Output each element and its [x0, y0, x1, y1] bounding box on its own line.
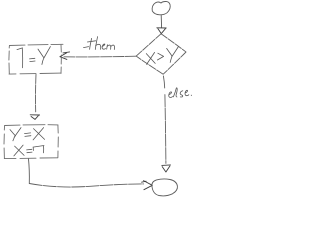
- label = (box2 line2): [27, 149, 32, 152]
- label Y (in diamond): [167, 47, 179, 63]
- start terminal (hand-drawn blob, top right): [152, 1, 170, 14]
- wire: box2 bottom, down then right to end terminal: [28, 159, 31, 183]
- wire: box1 down to box2: [35, 74, 37, 112]
- decision diamond X>Y: [136, 34, 186, 74]
- process box2 Y=X / X=T: [5, 124, 58, 127]
- label T (box2 line2): [33, 146, 44, 153]
- label X (in diamond): [146, 52, 155, 64]
- label = (box1): [30, 58, 36, 61]
- label Y (box2 line1): [10, 128, 21, 141]
- label X (box2 line1): [33, 128, 45, 140]
- wire: start to decision arrowhead: [160, 15, 162, 27]
- end terminal (hand-drawn ellipse, bottom right): [152, 179, 178, 196]
- label T (box1): [17, 48, 23, 68]
- label Y (box1): [38, 47, 50, 65]
- arrowhead into box2 top: [30, 115, 39, 120]
- label then (cursive, above arrow): [84, 47, 89, 48]
- arrowhead into decision top: [157, 28, 166, 34]
- arrowhead into end terminal top (points down): [162, 165, 171, 172]
- label else. (cursive, right of wire): [169, 92, 173, 98]
- wire: then-branch from diamond left vertex to box1: [64, 55, 136, 58]
- label X (box2 line2): [14, 145, 24, 156]
- label > (in diamond): [157, 53, 163, 60]
- arrowhead into end terminal (points right): [142, 181, 153, 190]
- process box1 T=Y: [10, 44, 64, 45]
- wire: else-branch from diamond bottom straight down: [163, 76, 166, 163]
- arrowhead into box1 (points left): [60, 52, 70, 60]
- label = (box2 line1): [25, 133, 31, 137]
